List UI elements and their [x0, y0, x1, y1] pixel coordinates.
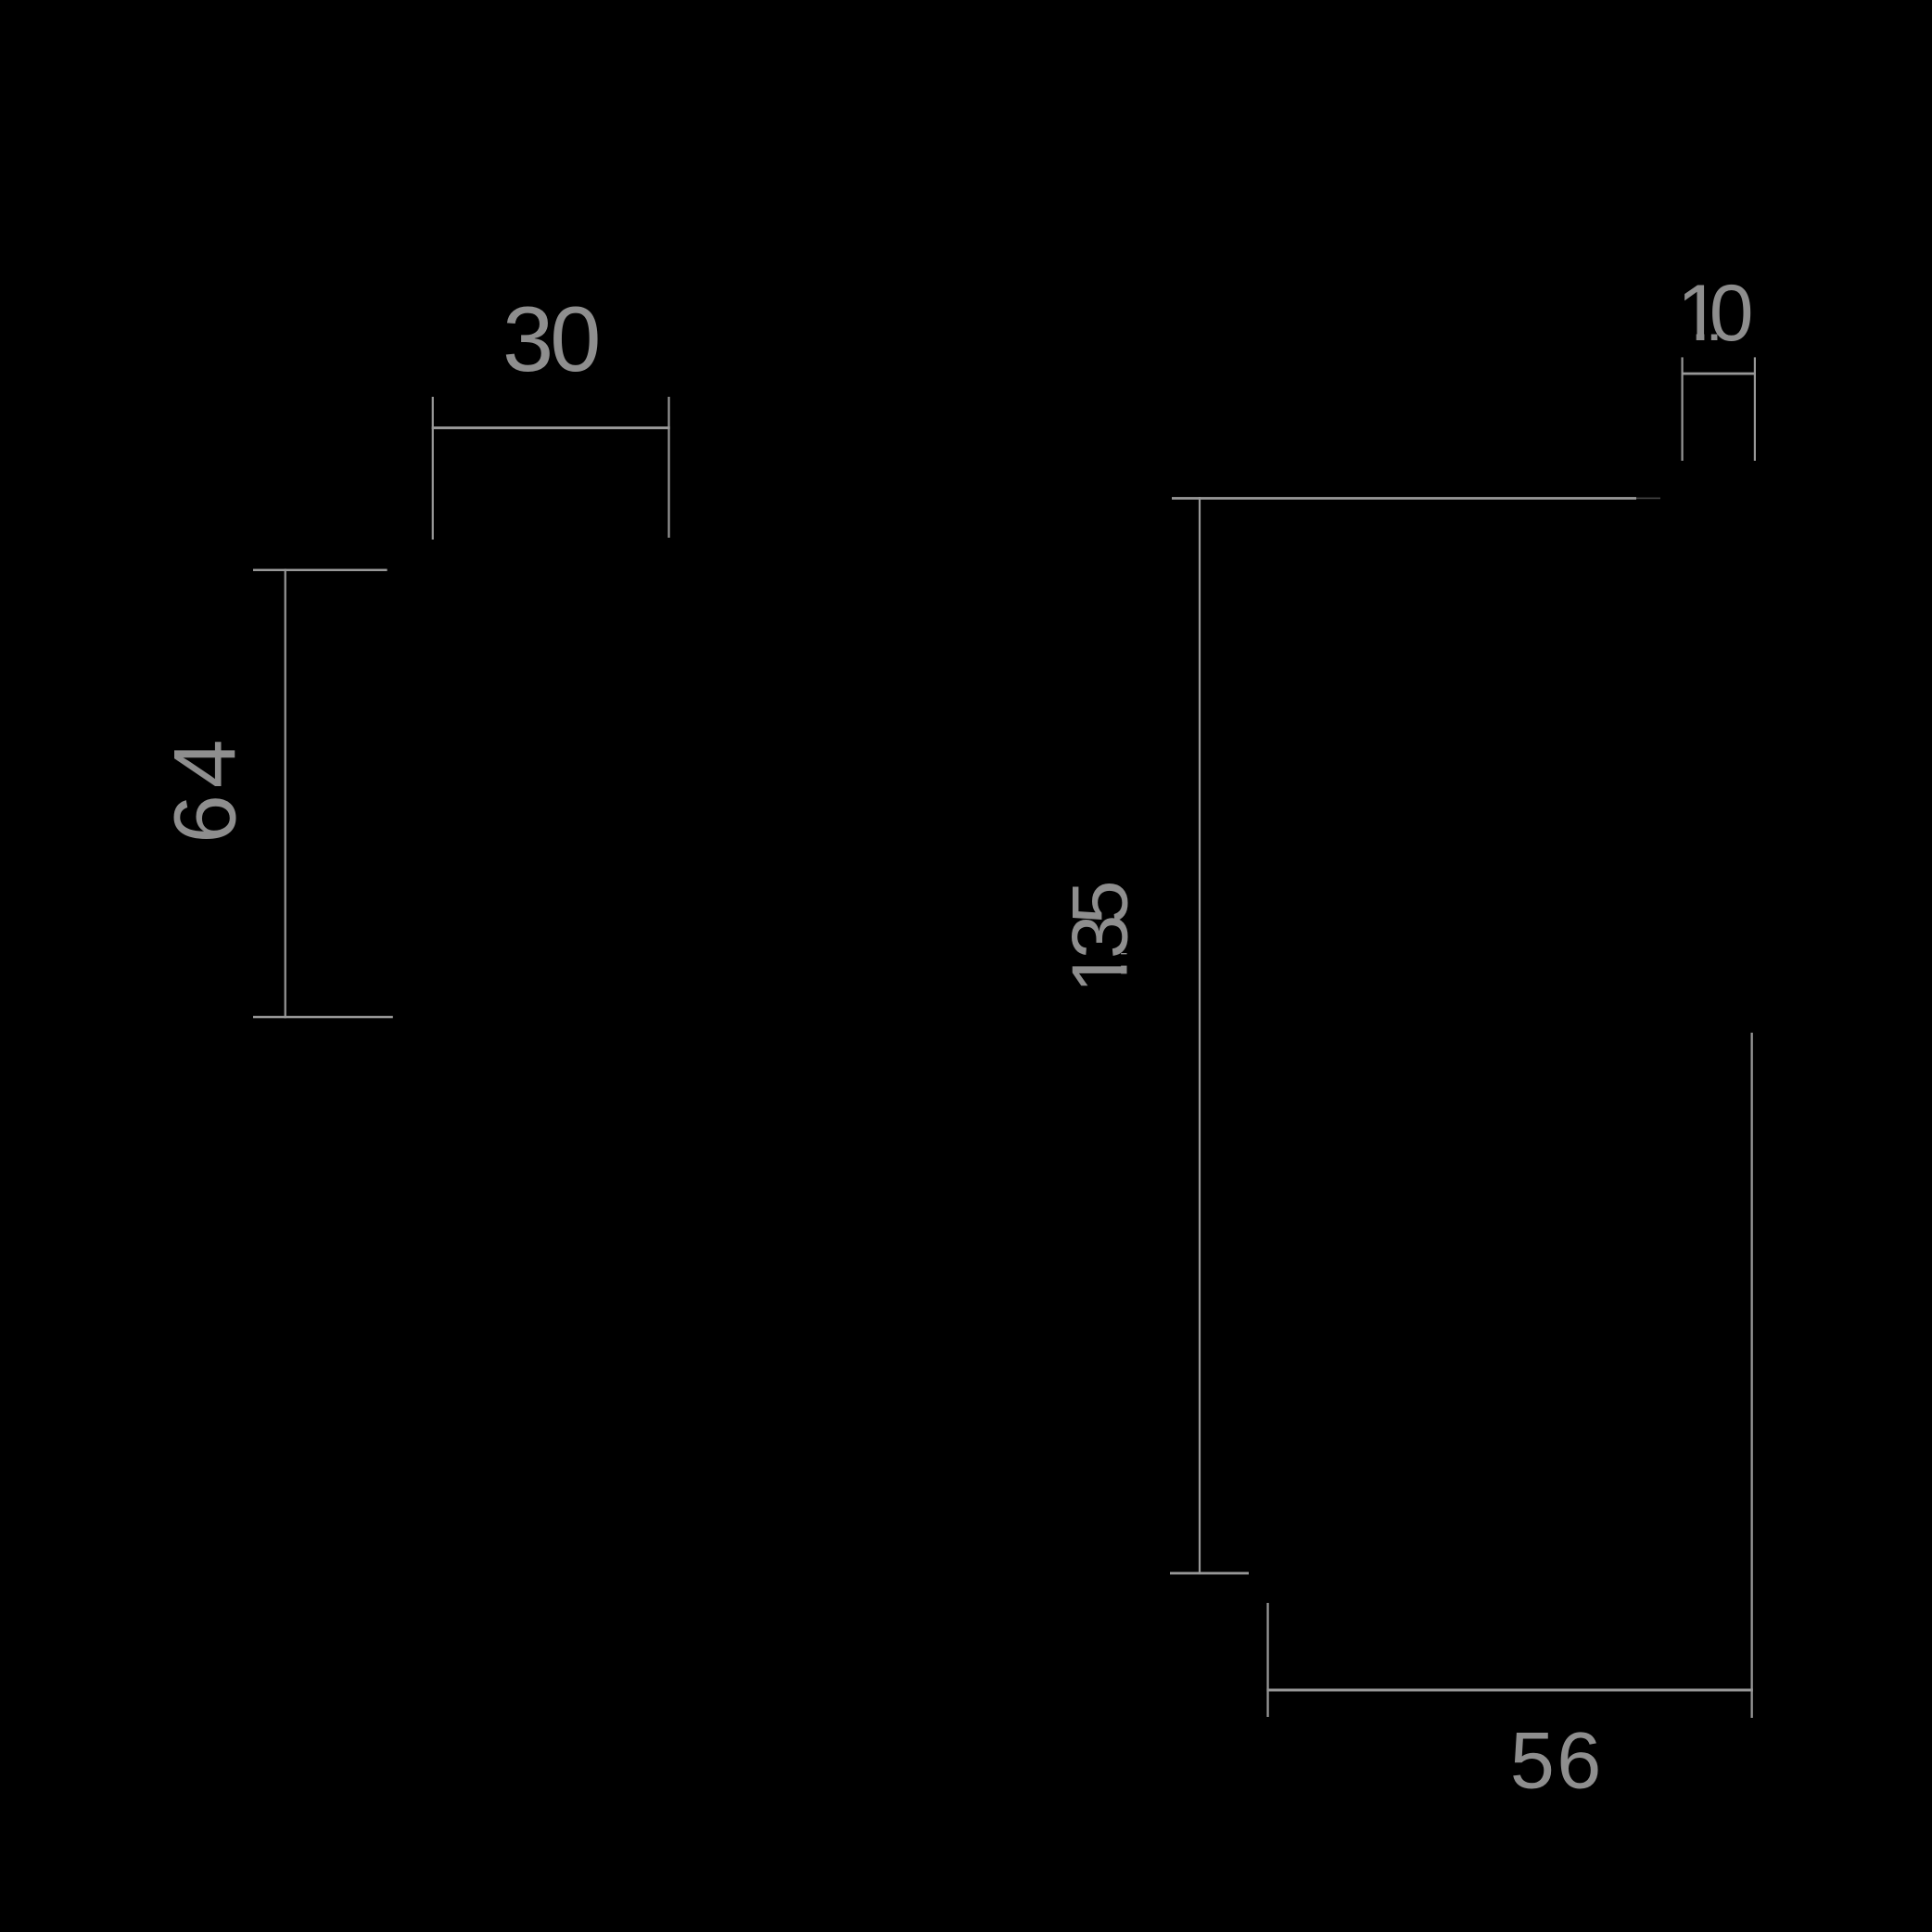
dim 64: dimension line: [285, 569, 286, 1019]
dim 56: right extension line: [1751, 1033, 1753, 1718]
dim 56: dimension line: [1266, 1689, 1752, 1692]
label 10: glyph foot mask left: [1682, 333, 1697, 341]
label 135: glyph foot mask upper: [1119, 954, 1127, 965]
dim 30: left extension line: [432, 397, 434, 540]
dim 64: bottom extension line: [253, 1016, 393, 1019]
svg-text:56: 56: [1510, 1717, 1604, 1806]
dim 10: right extension line: [1754, 357, 1756, 461]
dim 64: top extension line: [253, 569, 388, 572]
dim 30: right extension line: [667, 397, 669, 538]
dim 135: top extension line faint tail: [1636, 498, 1660, 500]
svg-text:10: 10: [1677, 269, 1751, 358]
dim 30: dimension line: [432, 426, 670, 429]
dim 135: top extension line: [1172, 497, 1636, 500]
svg-text:135: 135: [1055, 883, 1144, 993]
dim 64: value label (rotated): [156, 732, 254, 843]
dim 10: left extension line: [1682, 357, 1684, 461]
svg-text:64: 64: [156, 732, 254, 843]
label 10: glyph foot mask right: [1704, 333, 1710, 341]
dim 135: value label (rotated): [1055, 883, 1144, 993]
label 135: glyph foot mask lower: [1119, 973, 1127, 987]
dim 135: dimension line: [1199, 497, 1201, 1574]
svg-text:30: 30: [502, 288, 598, 391]
dim 10: dimension line: [1682, 373, 1757, 375]
dim 56: left extension line: [1266, 1603, 1268, 1717]
dim 135: bottom extension line: [1170, 1572, 1249, 1575]
